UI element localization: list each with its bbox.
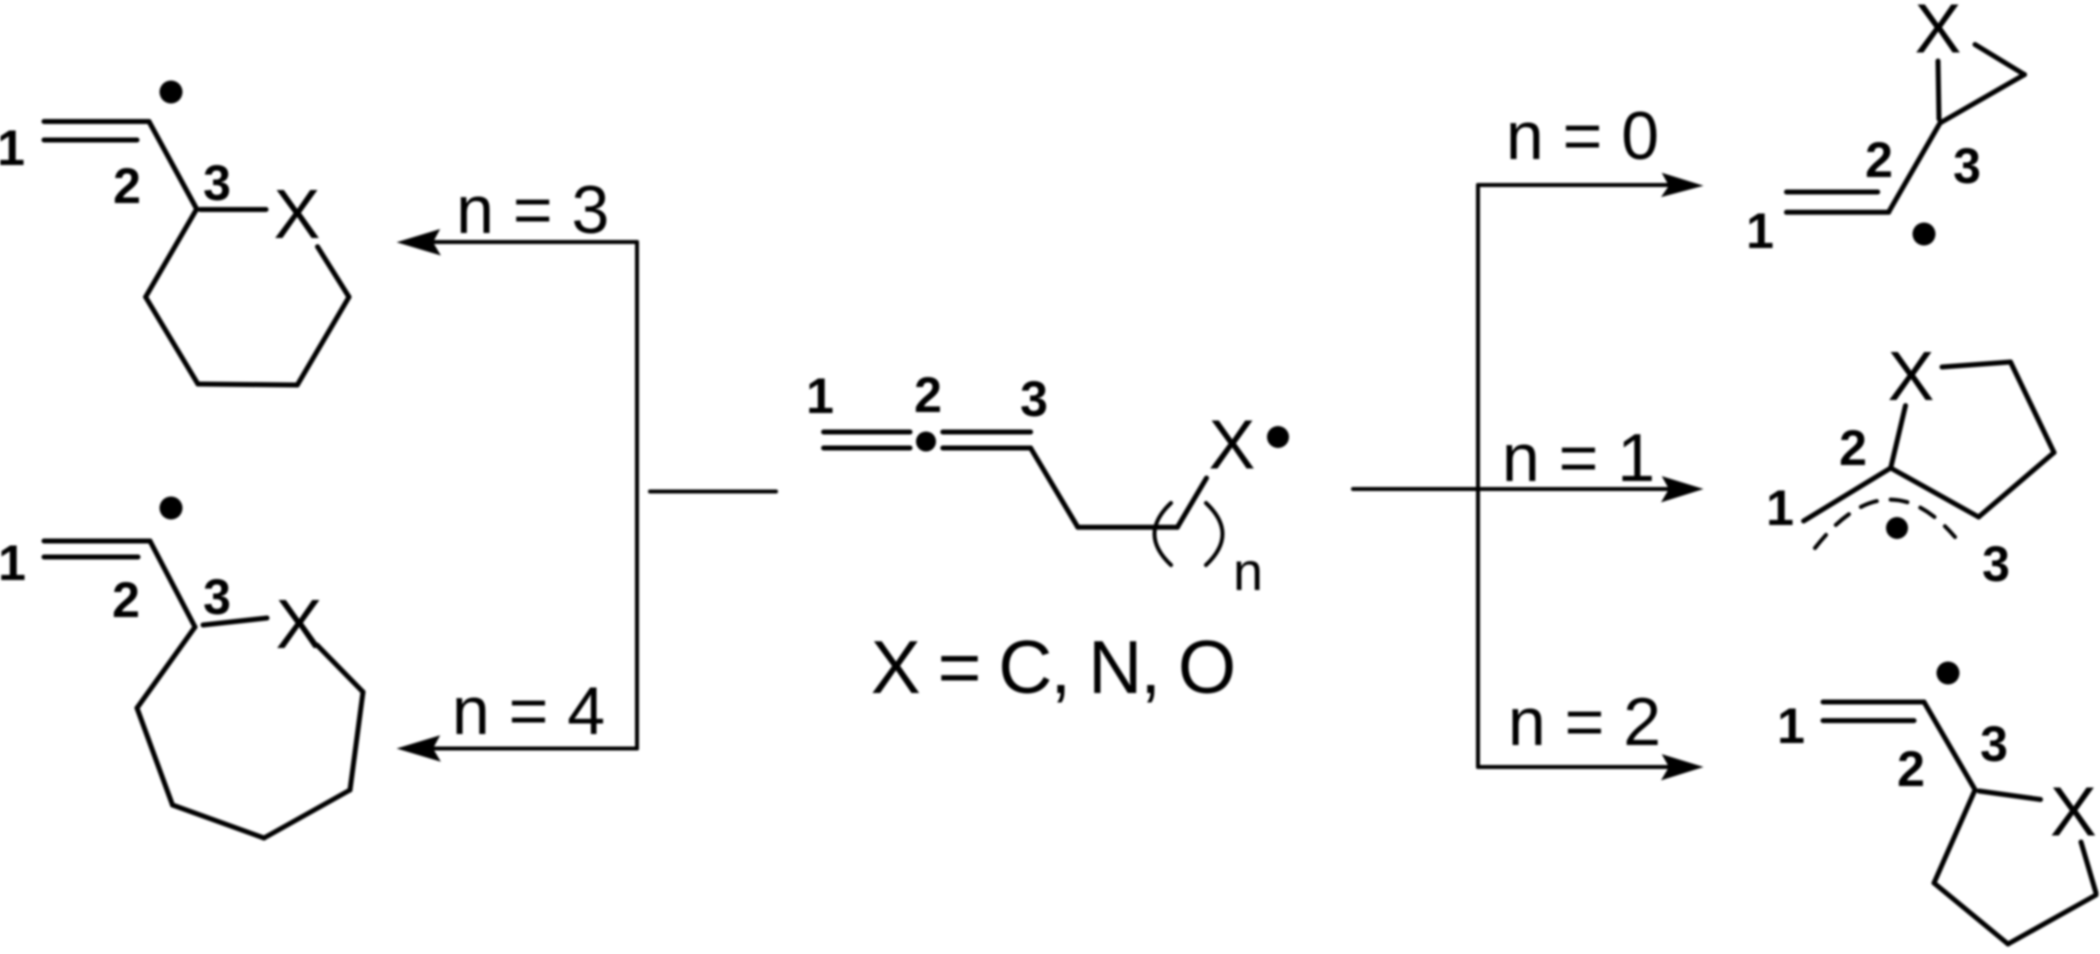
svg-text:3: 3	[1982, 536, 2010, 592]
svg-text:X = C, N, O: X = C, N, O	[871, 625, 1235, 709]
arrow n=3 line	[432, 240, 637, 244]
bond B C2-C3	[150, 541, 195, 627]
radical dot E	[1886, 517, 1908, 539]
bond D C3-Cright	[1940, 75, 2025, 123]
arrow n=1 head	[1661, 476, 1704, 502]
double bond A C1=C2	[44, 122, 149, 141]
bond E X-Ctr	[1942, 362, 2011, 367]
bond E C2-C1	[1804, 468, 1891, 521]
svg-text:n = 3: n = 3	[456, 172, 609, 248]
svg-text:1: 1	[806, 368, 834, 424]
svg-text:1: 1	[1766, 480, 1794, 536]
allene central radical dot	[916, 432, 936, 452]
arrow n=2 head	[1661, 754, 1704, 780]
arrow n=4 head	[397, 735, 441, 762]
allene double bond C2=C3	[943, 432, 1031, 448]
bond E C2-X	[1891, 406, 1906, 468]
bond E Cr-C3	[1979, 453, 2054, 518]
double bond B C1=C2	[44, 541, 150, 557]
svg-text:2: 2	[914, 367, 942, 423]
radical dot on X	[1267, 426, 1289, 448]
bond A C3-X	[200, 207, 266, 212]
double bond F C1=C2	[1823, 702, 1924, 721]
bond F C2-C3	[1924, 702, 1975, 790]
svg-text:X: X	[276, 585, 323, 663]
ring A bonds	[146, 209, 349, 385]
ring B bonds	[137, 627, 363, 838]
vertical branch line left	[635, 242, 639, 749]
left parenthesis of (CH2)n	[1155, 503, 1172, 565]
svg-text:2: 2	[113, 158, 141, 214]
chain bond CH2-CH2	[1078, 525, 1178, 530]
arrow n=2 line	[1478, 765, 1668, 769]
svg-text:2: 2	[112, 572, 140, 628]
chain bond CH2-X	[1177, 478, 1206, 527]
vertical branch line right	[1476, 185, 1480, 767]
bond A C2-C3	[149, 122, 197, 210]
svg-text:1: 1	[1777, 698, 1805, 754]
svg-text:3: 3	[1980, 716, 2008, 772]
svg-text:X: X	[1209, 406, 1256, 484]
svg-text:n = 0: n = 0	[1506, 98, 1659, 174]
svg-text:n: n	[1233, 542, 1263, 602]
right parenthesis of (CH2)n	[1206, 503, 1223, 565]
svg-text:1: 1	[0, 535, 26, 591]
svg-text:3: 3	[1020, 371, 1048, 427]
svg-text:n = 2: n = 2	[1508, 684, 1661, 760]
bond F C3-X	[1979, 791, 2041, 800]
svg-text:n = 4: n = 4	[452, 673, 605, 749]
arrow n=0 line	[1478, 183, 1668, 187]
svg-text:2: 2	[1865, 132, 1893, 188]
bond E Ctr-Cr	[2011, 362, 2055, 453]
svg-text:3: 3	[203, 569, 231, 625]
connector stub from centre to left branch	[650, 490, 776, 494]
bond D C3-C2	[1889, 123, 1940, 212]
arrow n=0 head	[1661, 173, 1704, 197]
svg-text:n = 1: n = 1	[1502, 420, 1655, 496]
svg-text:X: X	[2050, 773, 2097, 851]
svg-text:X: X	[1888, 337, 1935, 415]
svg-text:1: 1	[1746, 203, 1774, 259]
svg-text:X: X	[1915, 0, 1962, 68]
bond D X-C3	[1938, 61, 1939, 119]
dashed allyl arc E	[1815, 500, 1955, 548]
arrow n=1 line	[1353, 487, 1668, 491]
bond E C3-C2	[1891, 468, 1979, 517]
svg-text:2: 2	[1897, 741, 1925, 797]
radical dot B	[160, 497, 183, 520]
arrow n=3 head	[397, 229, 441, 256]
radical dot A	[160, 81, 183, 104]
bond D Cright-X	[1975, 45, 2025, 75]
arrow n=4 line	[432, 747, 637, 751]
radical dot F	[1937, 662, 1960, 685]
ring F bonds	[1934, 790, 2096, 944]
double bond D C1=C2	[1787, 192, 1889, 212]
bond B C3-X	[203, 618, 267, 625]
svg-text:1: 1	[0, 120, 25, 176]
chain bond C3-CH2	[1031, 448, 1078, 527]
svg-text:3: 3	[203, 155, 231, 211]
allene double bond C1=C2	[824, 432, 910, 448]
svg-text:X: X	[274, 175, 321, 253]
svg-text:3: 3	[1953, 138, 1981, 194]
svg-text:2: 2	[1839, 420, 1867, 476]
radical dot D	[1913, 223, 1936, 246]
